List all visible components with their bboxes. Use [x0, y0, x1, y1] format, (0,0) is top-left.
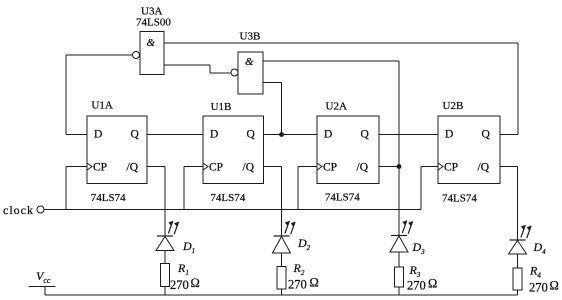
svg-text:D: D: [324, 129, 332, 141]
svg-text:CP: CP: [209, 162, 223, 174]
wire: clock riser to U2A CP: [297, 167, 299, 210]
label U3A / 74LS00: [136, 6, 171, 29]
wire: Vcc terminal drop: [44, 287, 46, 296]
svg-text:U2A: U2A: [326, 101, 347, 113]
svg-text:/Q: /Q: [127, 162, 139, 174]
svg-text:D2: D2: [297, 236, 311, 252]
wire: into U1A CP pin: [66, 166, 87, 168]
svg-text:270: 270: [170, 278, 189, 292]
svg-text:R1: R1: [177, 261, 189, 277]
wire: clock riser to U1A CP: [65, 167, 67, 210]
LED D1: [156, 221, 179, 251]
wire: clock bus: [44, 209, 421, 211]
junction: node U1B Q / U3B input: [279, 132, 284, 137]
NAND gate U3B (74LS00, output bubble on left): [231, 52, 263, 94]
LED D2: [273, 221, 296, 253]
svg-text:Q: Q: [247, 129, 256, 141]
svg-text:U2B: U2B: [443, 100, 464, 112]
wire: into U2A CP pin: [298, 166, 317, 168]
svg-text:R3: R3: [409, 263, 421, 279]
wire: U1A /Q out: [147, 166, 165, 168]
wire: Vcc rail: [45, 294, 518, 296]
svg-text:Q: Q: [361, 129, 370, 141]
svg-text:CP: CP: [93, 162, 107, 174]
svg-text:U1B: U1B: [211, 101, 232, 113]
node clock: input terminal: [3, 203, 44, 217]
flip-flop U1B (74LS74 D flip-flop): [203, 116, 264, 184]
wire: U1A Q to U1B D: [147, 134, 203, 136]
wire: U3A output (bubble) left to feedback column: [66, 54, 133, 56]
wire: right feedback column down to U2B Q: [517, 43, 519, 135]
svg-text:74LS74: 74LS74: [91, 192, 126, 204]
wire: clock riser to U2B CP: [420, 167, 422, 210]
wire: LED D2 to resistor R2: [281, 253, 283, 267]
svg-text:CP: CP: [444, 162, 458, 174]
svg-text:Ω: Ω: [550, 279, 559, 293]
wire: U1B /Q out: [264, 166, 282, 168]
wire: U3B bottom input toward U1B Q node: [263, 82, 282, 84]
wire: down to junction on U1B Q net: [281, 83, 283, 135]
wire: LED D4 to resistor R4: [517, 254, 519, 268]
svg-text:D: D: [210, 129, 218, 141]
svg-text:270: 270: [288, 278, 307, 292]
wire: into U2B CP pin: [421, 166, 438, 168]
wire: resistor R3 to Vcc rail: [398, 287, 400, 295]
resistor R2: [277, 267, 286, 290]
svg-text:&: &: [245, 56, 254, 68]
svg-text:Vcc: Vcc: [36, 269, 51, 285]
svg-text:D: D: [94, 129, 102, 141]
wire: into U1B CP pin: [184, 166, 203, 168]
wire: U1B Q to U2A D: [264, 134, 318, 136]
wire: clock riser to U1B CP: [183, 167, 185, 210]
wire: resistor R1 to Vcc rail: [164, 287, 166, 296]
resistor R1: [161, 264, 170, 287]
flip-flop U1A (74LS74 D flip-flop): [87, 116, 147, 184]
wire: U1B /Q column down to LED D2: [281, 167, 283, 237]
svg-text:&: &: [147, 37, 156, 49]
svg-text:clock: clock: [3, 203, 34, 217]
svg-text:D3: D3: [412, 240, 426, 256]
svg-text:270: 270: [407, 279, 426, 293]
svg-text:74LS74: 74LS74: [442, 193, 477, 205]
LED D4: [509, 225, 532, 254]
wire: U2B /Q column down to LED D4: [517, 167, 519, 241]
wire: U1A /Q column down to LED D1: [164, 167, 166, 237]
svg-text:U1A: U1A: [91, 100, 112, 112]
power Vcc terminal: [29, 269, 56, 287]
svg-text:Ω: Ω: [310, 276, 319, 290]
svg-text:/Q: /Q: [478, 162, 490, 174]
resistor R4: [513, 268, 522, 290]
svg-text:/Q: /Q: [243, 162, 255, 174]
svg-text:R4: R4: [529, 264, 541, 280]
wire: U2B /Q out: [500, 166, 518, 168]
wire: U2B Q out to feedback column: [500, 134, 518, 136]
svg-text:Ω: Ω: [191, 276, 200, 290]
wire: U3A top input from right feedback column: [164, 42, 518, 44]
wire: LED D3 to resistor R3: [398, 252, 400, 267]
svg-text:D1: D1: [182, 239, 195, 255]
svg-text:74LS00: 74LS00: [136, 17, 171, 29]
svg-text:Q: Q: [131, 129, 140, 141]
wire: into U1A D pin: [66, 134, 87, 136]
wire: to U3B output bubble: [210, 72, 231, 74]
wire: U3A bottom input from U3B output: [164, 64, 210, 66]
flip-flop U2A (74LS74 D flip-flop): [317, 116, 379, 184]
LED D3: [390, 221, 413, 253]
svg-text:D: D: [445, 129, 453, 141]
svg-text:/Q: /Q: [357, 162, 369, 174]
wire: U2A Q to U2B D: [379, 134, 438, 136]
svg-text:R2: R2: [293, 261, 305, 277]
svg-text:Q: Q: [482, 129, 491, 141]
wire: U3B top input from U2A /Q node: [263, 60, 399, 62]
svg-text:CP: CP: [323, 162, 337, 174]
svg-text:74LS74: 74LS74: [325, 192, 360, 204]
NAND gate U3A (74LS00, IEC symbol, output bubble on left): [133, 32, 165, 75]
wire: resistor R4 to Vcc rail: [517, 290, 519, 295]
svg-text:Ω: Ω: [428, 277, 437, 291]
wire: resistor R2 to Vcc rail: [281, 289, 283, 295]
svg-text:D4: D4: [533, 240, 547, 256]
svg-text:270: 270: [529, 281, 548, 295]
flip-flop U2B (74LS74 D flip-flop): [438, 116, 500, 184]
wire: jog down: [209, 65, 211, 73]
svg-text:74LS74: 74LS74: [210, 192, 245, 204]
wire: LED D1 to resistor R1: [164, 251, 166, 264]
wire: feedback column down to U1A D level: [65, 55, 67, 135]
wire: U2A /Q out to junction: [379, 166, 399, 168]
junction: node U2A /Q / U3B input / LED D3: [397, 164, 402, 169]
svg-text:U3B: U3B: [240, 31, 261, 43]
wire: column x=399 down through junction to LED D3: [398, 61, 400, 236]
resistor R3: [395, 267, 404, 287]
